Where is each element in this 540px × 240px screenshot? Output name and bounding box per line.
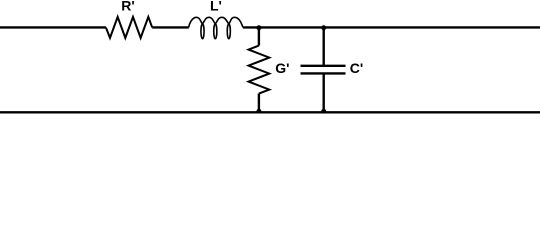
svg-text:C': C'	[350, 60, 363, 76]
svg-text:L': L'	[210, 0, 222, 14]
svg-text:G': G'	[275, 60, 289, 76]
svg-text:R': R'	[121, 0, 134, 14]
